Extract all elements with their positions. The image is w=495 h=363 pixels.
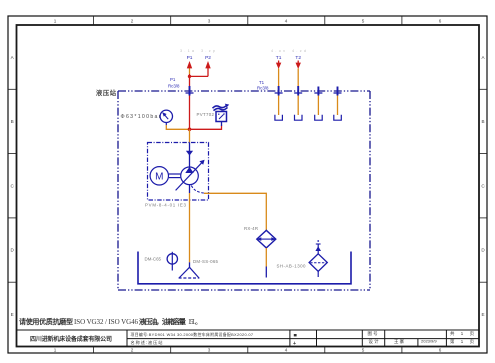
node P bulkhead crossing [186, 86, 194, 96]
svg-text:4.zd: 4.zd [292, 49, 306, 53]
svg-text:B: B [481, 119, 484, 124]
svg-text:15L。: 15L。 [188, 318, 202, 326]
svg-text:6: 6 [439, 348, 442, 353]
svg-text:E: E [11, 312, 14, 317]
wire T3 spare [317, 94, 319, 115]
node T bulkhead crossings [275, 86, 342, 96]
svg-text:请使用优质抗磨型: 请使用优质抗磨型 [19, 317, 73, 326]
level gauge DM-C65 [167, 252, 177, 271]
pressure gauge Φ63*100bar [121, 110, 173, 125]
air breather SH-AB-1300 [309, 240, 327, 277]
svg-text:4: 4 [285, 348, 288, 353]
wire filter to tank [265, 248, 267, 267]
node pressure junction [188, 128, 192, 132]
svg-text:DM-SS-065: DM-SS-065 [193, 259, 219, 264]
wire PVT702 branch [191, 126, 222, 130]
svg-text:4: 4 [285, 19, 288, 24]
svg-text:DM-C65: DM-C65 [145, 256, 162, 261]
svg-text:名称述:液压站: 名称述:液压站 [131, 339, 163, 346]
svg-text:E: E [481, 312, 484, 317]
coupling [169, 174, 181, 178]
svg-text:6: 6 [439, 19, 442, 24]
svg-text:PVT702: PVT702 [197, 112, 215, 117]
wire P2 branch [190, 75, 209, 77]
svg-text:RX-4R: RX-4R [244, 226, 258, 231]
node P junction [188, 75, 191, 78]
return filter RX-4R [257, 230, 276, 248]
motor M [150, 167, 168, 185]
svg-text:2023/9/9: 2023/9/9 [421, 339, 437, 344]
flow arrowhead [186, 151, 193, 156]
title block [17, 330, 480, 347]
svg-text:Rc3/8: Rc3/8 [257, 86, 269, 91]
suction strainer DM-SS-065 [179, 267, 200, 278]
svg-text:1: 1 [54, 348, 57, 353]
svg-text:+: + [293, 341, 296, 347]
port T2 arrow [295, 55, 301, 115]
wire T4 spare [337, 94, 339, 115]
svg-text:PVM-8-4-01 IE3: PVM-8-4-01 IE3 [145, 203, 187, 208]
svg-text:2: 2 [131, 19, 134, 24]
oil tank [138, 252, 351, 284]
svg-text:P1: P1 [170, 77, 176, 82]
svg-text:共 1 页: 共 1 页 [450, 330, 475, 337]
svg-text:5: 5 [362, 19, 365, 24]
faint spec labels above ports [180, 49, 306, 53]
port T1 arrow [276, 55, 282, 115]
wire suction [189, 185, 191, 193]
station boundary 液压站 enclosure [118, 91, 370, 290]
port P1 arrow [187, 55, 193, 130]
wire pump outlet [189, 129, 191, 142]
svg-text:1: 1 [54, 19, 57, 24]
svg-text:T1: T1 [259, 80, 265, 85]
svg-text:四川进新机床设备成套有限公司: 四川进新机床设备成套有限公司 [30, 335, 112, 343]
svg-text:设计: 设计 [369, 338, 380, 345]
svg-text:T2: T2 [295, 55, 301, 61]
svg-text:王寨: 王寨 [394, 338, 405, 344]
wire case drain (dashed) [191, 186, 204, 194]
svg-text:3: 3 [208, 19, 211, 24]
svg-text:项目编号:BYD901 W34 30.2000数控车床附属设: 项目编号:BYD901 W34 30.2000数控车床附属设备配BX2020.0… [131, 332, 254, 337]
svg-text:4.ov: 4.ov [271, 49, 285, 53]
svg-text:SH-AB-1300: SH-AB-1300 [277, 263, 307, 268]
svg-text:液压油，油箱容量: 液压油，油箱容量 [139, 317, 186, 326]
label P1 Rc3/8 [168, 77, 180, 89]
tank symbols under T lines [275, 115, 341, 121]
svg-text:P2: P2 [205, 55, 211, 61]
label T1 Rc3/8 [257, 80, 269, 91]
svg-text:B: B [11, 119, 14, 124]
wire drain to filter [204, 193, 266, 230]
svg-text:P1: P1 [187, 55, 193, 61]
svg-text:3.zp: 3.zp [201, 49, 215, 53]
port P2 arrow [205, 55, 211, 77]
svg-text:5: 5 [362, 348, 365, 353]
pump [176, 160, 205, 191]
note text [19, 317, 202, 326]
svg-text:液压站: 液压站 [96, 88, 117, 97]
svg-text:Rc3/8: Rc3/8 [168, 84, 180, 89]
svg-text:第 1 页: 第 1 页 [450, 338, 475, 345]
svg-text:ISO VG32 / ISO VG46: ISO VG32 / ISO VG46 [74, 318, 139, 326]
svg-text:3: 3 [208, 348, 211, 353]
svg-text:M: M [155, 172, 163, 183]
svg-text:T1: T1 [276, 55, 282, 61]
motor-pump group box [148, 143, 209, 201]
svg-text:2: 2 [131, 348, 134, 353]
wire gauge branch [166, 125, 188, 129]
pressure switch PVT702 [213, 104, 230, 122]
